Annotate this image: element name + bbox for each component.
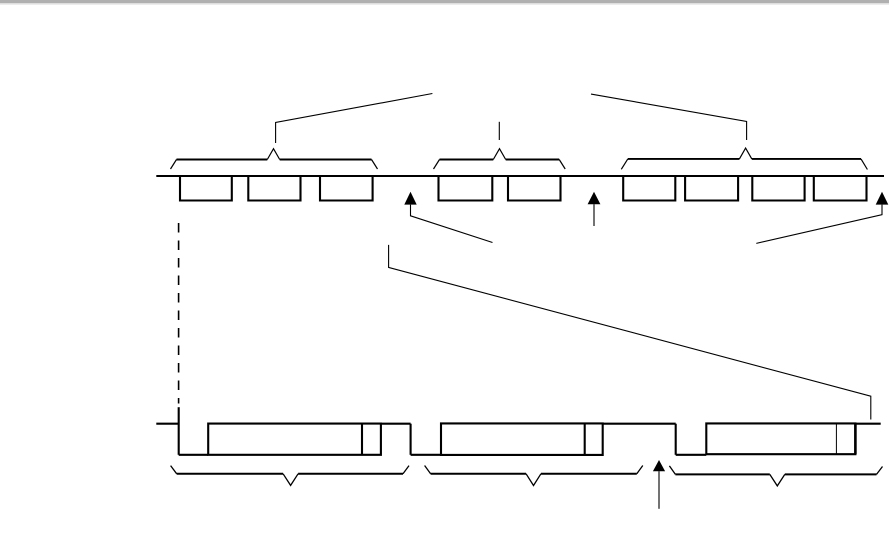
waveform top stub xyxy=(156,423,178,425)
waveform drop 3 xyxy=(675,424,677,455)
slot box 2 xyxy=(248,175,300,201)
waveform low segment 2 xyxy=(411,454,441,456)
brace group 1 xyxy=(171,149,378,169)
waveform drop 1 xyxy=(178,407,180,455)
slot box 6 xyxy=(623,175,675,201)
bottom brace B xyxy=(425,466,643,486)
up arrow 1 xyxy=(404,192,492,243)
slot box 9 xyxy=(814,175,867,201)
slot box 3 xyxy=(320,175,373,201)
dashed expansion line xyxy=(178,223,180,404)
waveform high segment 3 xyxy=(855,423,880,425)
slot box 7 xyxy=(685,175,738,201)
top gray bar xyxy=(0,0,889,3)
frame box 3 xyxy=(706,423,855,454)
leader line to brace 2 xyxy=(498,122,500,140)
frame box 1 divider xyxy=(361,424,363,455)
long leader to frame 3 xyxy=(389,245,871,420)
frame box 3 thick right edge xyxy=(854,423,857,454)
top bus line xyxy=(156,175,884,177)
leader line to brace 3 xyxy=(591,94,747,140)
frame box 1 xyxy=(208,424,381,455)
waveform high segment 2 xyxy=(603,423,676,425)
leader line to brace 1 xyxy=(276,94,433,144)
frame box 2 divider xyxy=(584,423,586,455)
frame box 3 thin divider xyxy=(835,423,837,454)
slot box 4 xyxy=(439,175,493,201)
waveform low segment 1 xyxy=(179,454,209,456)
slot box 1 xyxy=(180,175,232,201)
waveform low segment 3 xyxy=(676,454,707,456)
up arrow 3 xyxy=(756,192,888,244)
brace group 3 xyxy=(621,148,867,169)
slot box 5 xyxy=(508,175,561,201)
brace group 2 xyxy=(434,149,566,169)
waveform high segment 1 xyxy=(381,423,411,425)
bottom up arrow xyxy=(653,460,665,509)
bottom brace A xyxy=(171,466,409,486)
bottom brace C xyxy=(669,466,882,486)
slot box 8 xyxy=(752,175,804,201)
waveform drop 2 xyxy=(410,424,412,455)
up arrow 2 xyxy=(588,192,601,226)
frame box 2 xyxy=(441,423,603,455)
